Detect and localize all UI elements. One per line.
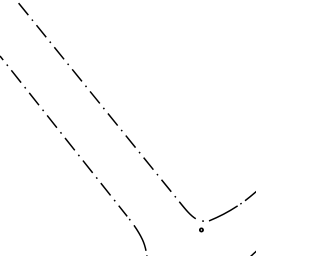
arc A2 rising branch of upper centerline [209, 191, 257, 221]
arc A3 hook at end of lower centerline [127, 216, 147, 256]
centerline L1 upper straight segment [19, 3, 180, 202]
arc A1 bottom bend of upper centerline [179, 202, 209, 221]
circle marker P1 [200, 228, 203, 231]
wire corner dash bottom-right [250, 250, 258, 256]
centerline L2 lower straight segment [0, 56, 127, 216]
